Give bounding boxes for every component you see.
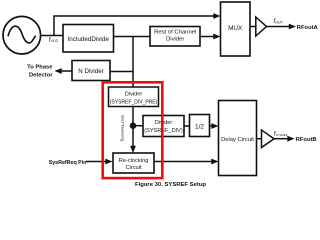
svg-text:(SYSREF_DIV_PRE): (SYSREF_DIV_PRE): [110, 100, 158, 106]
svg-text:N Divider: N Divider: [78, 68, 103, 75]
block N Divider: [72, 61, 110, 81]
buffer A (triangle): [256, 17, 267, 36]
svg-text:Figure 30. SYSREF Setup: Figure 30. SYSREF Setup: [135, 182, 206, 188]
block Divider (SYSREF_DIV): [143, 116, 184, 137]
wire top branch to MUX: [54, 16, 214, 36]
svg-text:Re-clocking: Re-clocking: [119, 158, 149, 164]
wire IncludedDivide to Rest of Channel Divider: [114, 36, 151, 38]
block MUX: [221, 2, 251, 56]
wire Rest of Channel Divider to MUX: [201, 36, 214, 38]
wire N Divider input from divider chain: [110, 71, 133, 73]
svg-text:1/2: 1/2: [195, 124, 204, 131]
wire buffer B to RFoutB: [274, 138, 288, 140]
wire Divider (SYSREF_DIV) to 1/2: [184, 125, 190, 127]
wire 1/2 to Delay Circuit: [210, 125, 213, 127]
oscillator (VCO): [3, 16, 41, 54]
svg-text:RFoutB: RFoutB: [296, 137, 317, 143]
svg-text:Divider: Divider: [125, 91, 143, 97]
svg-text:RFoutA: RFoutA: [297, 25, 319, 31]
wire VCO to IncludedDivide: [41, 35, 63, 37]
block Divider (SYSREF_DIV_PRE): [109, 87, 159, 107]
wire SysRefReq Pin to Re-clocking circuit: [86, 161, 107, 163]
wire Re-clocking circuit to Delay Circuit: [154, 161, 212, 163]
block 1/2 divider: [190, 115, 210, 137]
svg-text:fINTERPOLATOR: fINTERPOLATOR: [119, 114, 125, 140]
block Re-clocking Circuit: [113, 153, 154, 173]
red highlight box: [103, 82, 163, 178]
node To Phase Detector label: [27, 65, 53, 79]
block IncludedDivide: [63, 25, 114, 53]
wire junction to Divider (SYSREF_DIV): [133, 125, 143, 127]
svg-text:Divider: Divider: [166, 36, 184, 42]
svg-text:Detector: Detector: [29, 73, 53, 79]
svg-text:IncludedDivide: IncludedDivide: [68, 36, 110, 43]
svg-text:Circuit: Circuit: [125, 165, 142, 171]
block Delay Circuit: [219, 101, 257, 176]
wire vertical branch to SYSREF pre divider: [132, 37, 134, 88]
wire N Divider to phase detector: [61, 70, 72, 72]
buffer B (triangle): [262, 130, 275, 148]
svg-text:To Phase: To Phase: [27, 65, 53, 71]
wire MUX to output buffer: [250, 26, 256, 28]
block Rest of Channel Divider: [150, 27, 200, 47]
svg-text:Rest of Channel: Rest of Channel: [154, 29, 196, 35]
wire buffer A to RFoutA: [267, 26, 290, 28]
svg-text:MUX: MUX: [228, 25, 243, 32]
svg-text:Delay Circuit: Delay Circuit: [221, 137, 254, 143]
wire Delay Circuit to buffer B: [257, 138, 262, 140]
junction dot fINTERPOLATOR node: [130, 123, 136, 129]
wire SYSREF_DIV_PRE down to Re-clocking circuit: [132, 107, 134, 148]
svg-text:SysRefReq Pin: SysRefReq Pin: [49, 160, 87, 166]
